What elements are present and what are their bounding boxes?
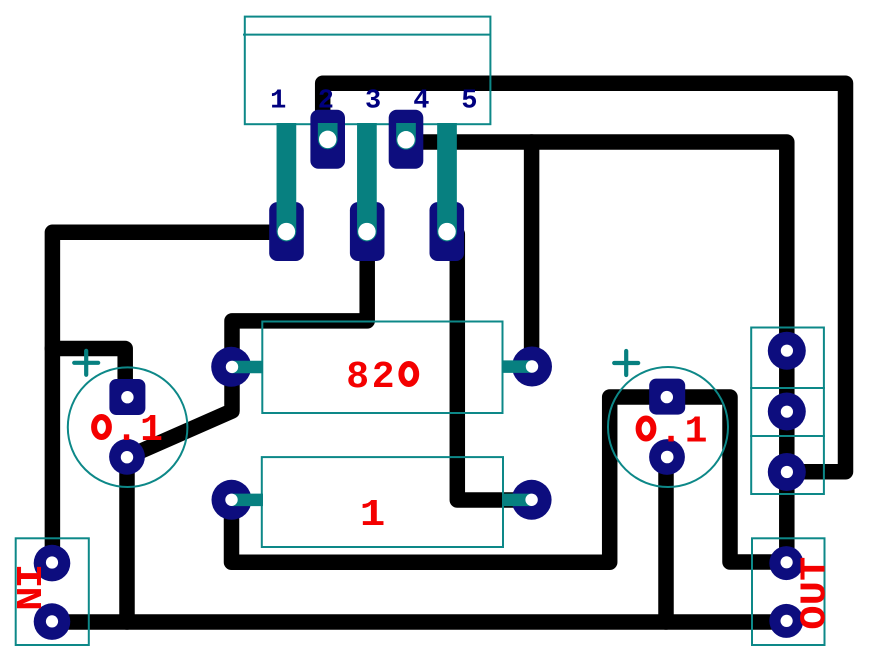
- outline J2 3-pin connector boxes: [751, 328, 824, 495]
- svg-text:.: .: [115, 409, 138, 452]
- hole J2 pin1: [781, 345, 793, 357]
- value label C2 0.1: [660, 411, 708, 454]
- svg-text:5: 5: [461, 87, 477, 117]
- wire net C2 square pad: from R2 left pad up-over to OUT pad1: [232, 397, 787, 562]
- svg-text:2: 2: [318, 87, 334, 117]
- outline R2 1 body: [262, 457, 503, 547]
- value label R1 820: [346, 356, 394, 399]
- svg-text:3: 3: [365, 87, 381, 117]
- hole OUT 2: [781, 615, 793, 627]
- pad C1 negative (round): [109, 439, 145, 475]
- hole R1 left: [226, 361, 238, 373]
- svg-text:I: I: [6, 564, 47, 589]
- hole U1 pin3: [358, 223, 376, 241]
- hole R2 left: [225, 494, 237, 506]
- pad IN 2: [34, 603, 71, 640]
- wire net VCC: pin2 top rail to right side down to J2 pad3: [323, 83, 846, 472]
- label IN (rotated): [6, 564, 47, 611]
- hole U1 pin4: [397, 131, 415, 149]
- hole OUT 1: [781, 556, 793, 568]
- outline R1 820 body: [262, 322, 502, 414]
- pad U1 pin2: [310, 110, 345, 169]
- wire bottom ground rail: IN pad2 to OUT pad2: [52, 614, 786, 630]
- svg-text:T: T: [795, 557, 836, 581]
- wire net pin4: horizontal to right column, down through J2 pads to OUT pad1: [406, 142, 787, 563]
- hole U1 pin2: [319, 131, 337, 149]
- wire branch to C1 square pad: [52, 349, 125, 397]
- svg-text:1: 1: [360, 494, 386, 537]
- wire C1 round pad down to ground rail: [119, 457, 135, 622]
- svg-text:U: U: [795, 581, 836, 605]
- svg-text:8: 8: [346, 356, 369, 399]
- wire teal stub R2 left: [232, 494, 263, 507]
- pad R2 right: [512, 480, 552, 520]
- wire branch to R1 820 right pad: [524, 142, 540, 367]
- wire net pin3: down, left, down through R1 left pad, diagonal to C1 round pad: [127, 232, 367, 457]
- pad OUT 2: [769, 604, 803, 638]
- svg-text:N: N: [6, 586, 47, 611]
- svg-text:4: 4: [413, 87, 429, 117]
- wire net pin1: left to left rail, down to IN pad1: [52, 232, 286, 563]
- C1 polarity plus sign: [74, 351, 98, 375]
- pad J2 pin3: [768, 453, 806, 491]
- pad R1 right: [512, 347, 552, 387]
- pad J2 pin1: [768, 332, 806, 370]
- hole U1 pin5: [438, 223, 456, 241]
- pad U1 pin5: [430, 202, 465, 261]
- pad U1 pin4: [389, 110, 424, 169]
- pad C2 positive (square): [649, 379, 685, 415]
- wire teal stub R1 right: [502, 360, 532, 373]
- svg-text:1: 1: [140, 409, 163, 452]
- outline OUT connector box: [752, 538, 825, 645]
- wire teal stub U1 pin1: [277, 123, 297, 232]
- C2 polarity plus sign: [614, 351, 638, 375]
- wire teal stub R2 right: [502, 494, 532, 507]
- svg-text:.: .: [660, 411, 683, 454]
- wire teal stub R1 left: [232, 361, 263, 374]
- value label C1 zero glyph: [94, 417, 109, 437]
- pad R1 left: [211, 347, 251, 387]
- outline C1 circle: [68, 367, 188, 487]
- hole C1 round pad: [121, 451, 133, 463]
- pad J2 pin2: [768, 393, 806, 431]
- pad U1 pin3: [350, 202, 385, 261]
- svg-text:O: O: [795, 605, 836, 629]
- pad IN 1: [34, 545, 71, 582]
- pad C1 positive (square): [109, 379, 145, 415]
- value label C1 0.1: [115, 409, 163, 452]
- svg-text:2: 2: [372, 356, 395, 399]
- pad OUT 1: [769, 546, 803, 580]
- svg-text:1: 1: [270, 87, 286, 117]
- hole C2 square pad: [661, 391, 673, 403]
- outline IN connector box: [16, 538, 89, 645]
- wire teal stub U1 pin2: [318, 123, 338, 139]
- outline U1 component body: [243, 17, 490, 125]
- hole R2 right: [525, 494, 537, 506]
- hole IN 1: [46, 556, 58, 568]
- hole U1 pin1: [278, 223, 296, 241]
- hole J2 pin2: [781, 406, 793, 418]
- svg-text:1: 1: [685, 411, 708, 454]
- wire C2 round pad down to ground rail: [658, 457, 674, 622]
- label OUT (rotated): [795, 557, 836, 630]
- wire net pin5: down then right to R2 right pad: [457, 234, 531, 500]
- outline C2 circle: [608, 367, 728, 487]
- hole R1 right: [526, 360, 538, 372]
- wire teal stub U1 pin3: [357, 123, 377, 232]
- pad R2 left: [212, 480, 252, 520]
- hole J2 pin3: [781, 466, 793, 478]
- wire teal stub U1 pin4: [396, 123, 416, 140]
- pad C2 negative (round): [649, 439, 685, 475]
- wire teal stub U1 pin5: [437, 123, 457, 232]
- value label R1 zero glyph: [401, 364, 416, 384]
- hole C1 square pad: [121, 391, 133, 403]
- hole C2 round pad: [661, 451, 674, 464]
- pad U1 pin1: [269, 202, 304, 261]
- value label C2 zero glyph: [639, 419, 654, 439]
- hole IN 2: [46, 615, 58, 627]
